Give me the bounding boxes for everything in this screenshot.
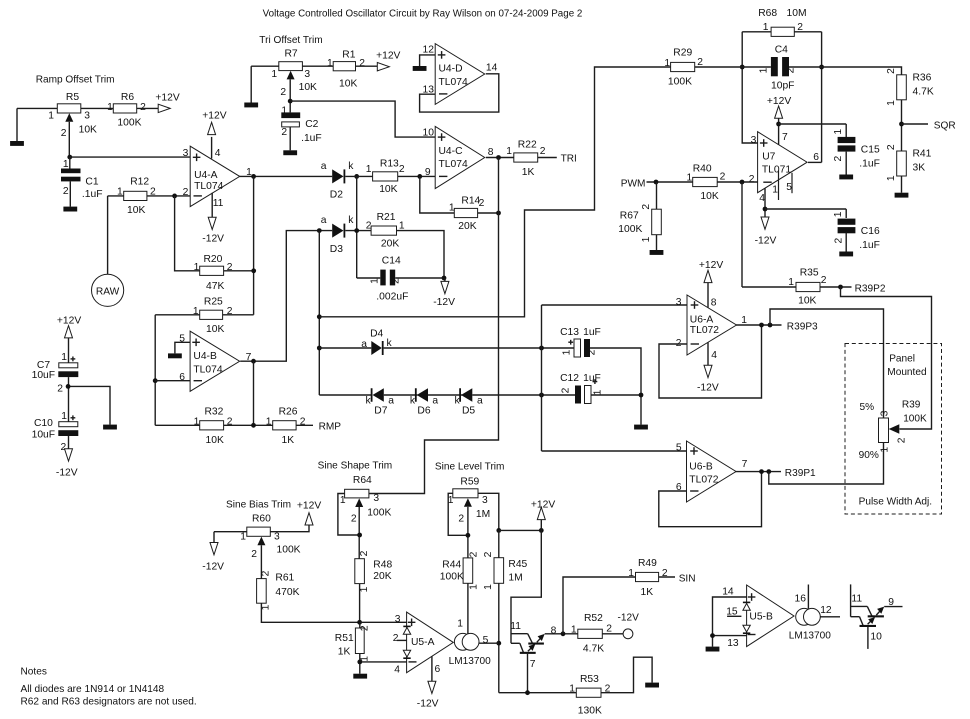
ground	[634, 425, 648, 430]
svg-text:8: 8	[488, 147, 494, 158]
wire	[68, 377, 110, 425]
svg-text:100K: 100K	[277, 545, 301, 556]
svg-text:10K: 10K	[206, 324, 224, 335]
svg-text:2: 2	[697, 57, 703, 68]
wire TRI bus down to sine shaper	[369, 158, 499, 494]
svg-text:1: 1	[63, 159, 69, 170]
wire to R39 pin3	[770, 309, 884, 418]
svg-text:90%: 90%	[859, 450, 879, 461]
diode U5-B bias upper	[743, 602, 750, 611]
svg-text:C10: C10	[34, 418, 53, 429]
svg-text:2: 2	[359, 625, 370, 631]
wire U6-A feedback	[659, 325, 762, 398]
svg-text:U5-A: U5-A	[411, 637, 435, 648]
svg-text:SQR: SQR	[934, 120, 956, 131]
wire U6-B output	[735, 471, 781, 473]
svg-text:6: 6	[435, 664, 441, 675]
svg-text:1: 1	[886, 100, 897, 106]
ground	[895, 193, 909, 198]
wire	[398, 175, 436, 177]
svg-text:2: 2	[785, 67, 796, 73]
power -12V arrow U5-A pin6	[417, 656, 441, 709]
op-amp U5-A	[393, 612, 454, 675]
svg-text:4.7K: 4.7K	[913, 86, 934, 97]
wire U4-B output	[240, 231, 332, 362]
svg-text:LM13700: LM13700	[789, 630, 831, 641]
op-amp U4-A	[183, 146, 253, 209]
svg-text:+12V: +12V	[202, 111, 226, 122]
wire R68 loop	[742, 32, 821, 163]
svg-text:D2: D2	[330, 190, 343, 201]
svg-text:100K: 100K	[440, 571, 464, 582]
wire	[601, 657, 652, 693]
power +12V arrow	[297, 501, 321, 526]
capacitor C16	[833, 209, 880, 252]
svg-text:2: 2	[280, 87, 286, 98]
power +12V arrow	[376, 50, 400, 71]
wire U6-B pin5	[542, 450, 687, 452]
op-amp U5-B	[722, 585, 794, 649]
svg-text:2: 2	[351, 513, 357, 524]
svg-text:2: 2	[479, 198, 485, 209]
svg-text:Panel: Panel	[889, 353, 915, 364]
svg-text:100K: 100K	[668, 77, 692, 88]
ground	[413, 66, 427, 71]
svg-text:1: 1	[340, 495, 346, 506]
svg-text:2: 2	[897, 437, 908, 443]
wire	[901, 176, 903, 193]
svg-text:a: a	[321, 215, 327, 226]
wire	[499, 529, 542, 531]
node junction	[288, 99, 293, 104]
ground	[103, 425, 117, 430]
wire	[448, 493, 468, 535]
ground	[839, 252, 853, 257]
wire	[359, 584, 361, 623]
svg-text:16: 16	[795, 593, 807, 604]
svg-text:.1uF: .1uF	[301, 133, 322, 144]
svg-text:10: 10	[870, 632, 882, 643]
svg-text:10K: 10K	[339, 78, 357, 89]
svg-text:Sine Bias Trim: Sine Bias Trim	[226, 500, 291, 511]
svg-text:7: 7	[782, 132, 788, 143]
svg-text:1: 1	[833, 129, 844, 135]
node junction	[740, 65, 745, 70]
svg-text:Ramp Offset Trim: Ramp Offset Trim	[36, 75, 115, 86]
svg-text:TL074: TL074	[194, 181, 223, 192]
svg-text:D4: D4	[370, 328, 383, 339]
wire U4-D feedback	[420, 74, 499, 112]
svg-text:6: 6	[813, 152, 819, 163]
svg-text:R45: R45	[508, 559, 527, 570]
svg-text:U4-D: U4-D	[439, 64, 463, 75]
node junction	[539, 346, 544, 351]
svg-text:1: 1	[759, 67, 770, 73]
label Panel Mounted	[887, 353, 926, 378]
capacitor C15	[833, 124, 880, 175]
OTA output symbol U5-A	[454, 633, 479, 650]
svg-text:2: 2	[140, 102, 146, 113]
wire U4-B pin5	[175, 342, 190, 353]
svg-text:1: 1	[772, 184, 778, 195]
node junction	[496, 155, 501, 160]
node junction	[417, 174, 422, 179]
wire	[717, 181, 757, 183]
svg-text:3: 3	[395, 614, 401, 625]
wire +12V to transistor collectors	[511, 530, 541, 643]
wire U5-B pin15 stub	[727, 615, 741, 617]
wire pin10 emitter	[867, 627, 869, 649]
svg-text:2: 2	[821, 275, 827, 286]
resistor R32	[194, 407, 233, 447]
wire U6-A output	[736, 324, 782, 326]
svg-text:3: 3	[482, 495, 488, 506]
svg-text:1M: 1M	[508, 572, 522, 583]
svg-text:10K: 10K	[206, 435, 224, 446]
diode U5-A bias upper	[403, 626, 410, 635]
node junction	[819, 65, 824, 70]
op-amp U7 offset pins	[779, 170, 793, 200]
wire	[261, 603, 359, 622]
wire	[319, 394, 371, 396]
resistor R6	[107, 92, 146, 129]
svg-text:-12V: -12V	[697, 382, 719, 393]
wire	[541, 305, 543, 451]
svg-text:12: 12	[820, 605, 832, 616]
svg-text:2: 2	[720, 172, 726, 183]
svg-text:TL074: TL074	[193, 365, 222, 376]
wire main row	[695, 67, 902, 75]
svg-text:1: 1	[107, 102, 113, 113]
svg-text:11: 11	[213, 198, 224, 209]
svg-text:R21: R21	[377, 212, 396, 223]
node junction	[357, 620, 362, 625]
wire	[472, 394, 575, 396]
wire U5-B pin16	[807, 585, 809, 609]
svg-text:7: 7	[530, 659, 536, 670]
wire U4-D pin12	[420, 55, 436, 66]
svg-text:1: 1	[641, 236, 652, 242]
transistor buffer Q lower	[511, 643, 536, 670]
wire	[302, 65, 333, 67]
svg-text:2: 2	[61, 128, 67, 139]
ground	[645, 683, 659, 688]
svg-text:1: 1	[628, 568, 634, 579]
svg-text:-12V: -12V	[417, 698, 439, 709]
svg-text:D3: D3	[330, 244, 343, 255]
svg-text:SIN: SIN	[679, 573, 696, 584]
wire	[420, 176, 455, 213]
svg-text:10K: 10K	[127, 205, 145, 216]
svg-text:R44: R44	[442, 559, 461, 570]
resistor R48	[355, 550, 393, 592]
diode U5-A bias lower	[403, 650, 410, 659]
diode D7	[366, 388, 395, 416]
wire R59 pin3 to +12V node	[478, 493, 499, 530]
node junction	[172, 194, 177, 199]
svg-text:TL074: TL074	[439, 77, 468, 88]
svg-text:R68: R68	[758, 8, 777, 19]
svg-text:R53: R53	[580, 674, 599, 685]
svg-text:1: 1	[271, 69, 277, 80]
svg-text:47K: 47K	[206, 281, 224, 292]
svg-text:1: 1	[483, 584, 494, 590]
wire	[359, 654, 361, 674]
svg-text:R1: R1	[342, 49, 355, 60]
wire	[253, 176, 255, 314]
svg-text:2: 2	[587, 349, 598, 355]
panel mounted dashed box	[845, 344, 942, 515]
node junction	[251, 174, 256, 179]
node junction	[768, 323, 773, 328]
wire to R39 wiper	[841, 287, 932, 429]
power -12V arrow at C10	[56, 436, 78, 478]
wire U5-B pin13	[713, 635, 747, 637]
diode D6	[410, 388, 439, 416]
svg-text:1: 1	[687, 173, 693, 184]
svg-text:C4: C4	[775, 45, 788, 56]
wire	[498, 530, 500, 557]
svg-text:1: 1	[833, 211, 844, 217]
svg-text:R61: R61	[275, 572, 294, 583]
svg-text:2: 2	[390, 278, 401, 284]
wire buffer out pin9	[884, 606, 902, 608]
svg-text:10K: 10K	[379, 184, 397, 195]
svg-text:1: 1	[61, 352, 67, 363]
wire	[68, 122, 70, 157]
svg-text:TL072: TL072	[689, 474, 718, 485]
node junction	[442, 276, 447, 281]
svg-text:k: k	[366, 395, 372, 406]
wire U4-B out node vertical	[318, 231, 320, 395]
wire	[358, 507, 360, 559]
svg-text:.1uF: .1uF	[859, 158, 880, 169]
transistor buffer Q upper	[510, 621, 544, 645]
svg-text:+12V: +12V	[699, 260, 723, 271]
ground	[706, 647, 720, 652]
svg-text:R32: R32	[205, 407, 224, 418]
svg-text:R26: R26	[279, 407, 298, 418]
svg-text:C14: C14	[382, 256, 401, 267]
wire	[901, 100, 903, 151]
diode D4	[361, 328, 392, 355]
svg-text:1: 1	[880, 447, 891, 453]
svg-text:R13: R13	[380, 159, 399, 170]
svg-text:1: 1	[571, 624, 577, 635]
node junction	[354, 174, 359, 179]
trimmer R60	[240, 513, 300, 560]
svg-text:6: 6	[179, 372, 185, 383]
op-amp U4-D	[423, 44, 498, 105]
svg-text:-12V: -12V	[618, 613, 640, 624]
svg-text:D6: D6	[417, 406, 430, 417]
svg-text:1: 1	[366, 164, 372, 175]
wire U4-A output	[240, 175, 333, 177]
wire	[602, 633, 623, 635]
wire	[155, 380, 190, 382]
node junction	[763, 207, 768, 212]
svg-text:10uF: 10uF	[32, 370, 55, 381]
svg-text:TL074: TL074	[439, 159, 468, 170]
svg-text:C1: C1	[85, 177, 98, 188]
svg-text:a: a	[432, 395, 438, 406]
node junction	[539, 393, 544, 398]
svg-text:U4-C: U4-C	[439, 146, 464, 157]
wire	[498, 583, 500, 692]
wire to C16	[765, 208, 846, 210]
svg-text:2: 2	[483, 551, 494, 557]
node junction	[67, 155, 72, 160]
svg-text:All diodes are 1N914 or 1N4148: All diodes are 1N914 or 1N4148	[21, 684, 165, 695]
svg-text:1: 1	[569, 683, 575, 694]
svg-text:4: 4	[711, 350, 717, 361]
resistor R13	[366, 159, 405, 195]
svg-text:2: 2	[540, 146, 546, 157]
resistor R14	[449, 195, 485, 232]
node junction	[66, 384, 71, 389]
wire	[647, 181, 693, 183]
wire	[214, 532, 247, 543]
svg-text:U6-B: U6-B	[689, 461, 713, 472]
svg-text:a: a	[361, 339, 367, 350]
wire	[147, 195, 190, 197]
svg-text:7: 7	[742, 459, 748, 470]
svg-text:1uF: 1uF	[583, 373, 601, 384]
svg-text:1: 1	[48, 111, 54, 122]
wire	[356, 65, 378, 67]
ground	[283, 150, 297, 155]
svg-text:1K: 1K	[641, 587, 654, 598]
svg-text:2: 2	[833, 237, 844, 243]
svg-text:a: a	[477, 395, 483, 406]
resistor R51	[335, 628, 371, 662]
node junction	[838, 285, 843, 290]
svg-text:R41: R41	[913, 148, 932, 159]
svg-text:1: 1	[327, 58, 333, 69]
node junction	[317, 228, 322, 233]
wire	[224, 424, 273, 426]
svg-text:R39P3: R39P3	[787, 321, 818, 332]
node junction	[354, 228, 359, 233]
resistor R67	[618, 204, 661, 243]
svg-text:10K: 10K	[299, 82, 317, 93]
resistor R12	[117, 176, 156, 216]
svg-text:3: 3	[84, 111, 90, 122]
svg-text:1: 1	[194, 262, 200, 273]
svg-text:1: 1	[664, 58, 670, 69]
svg-text:8: 8	[711, 297, 717, 308]
wire U5-A pin2 stub	[397, 639, 407, 641]
svg-text:10pF: 10pF	[771, 80, 794, 91]
svg-text:1: 1	[886, 175, 897, 181]
svg-text:2: 2	[359, 550, 370, 556]
wire	[384, 394, 418, 396]
power -12V arrow U4-A pin11	[202, 193, 224, 245]
diode U5-B bias lower	[743, 625, 750, 634]
svg-text:2: 2	[886, 144, 897, 150]
svg-text:R39P1: R39P1	[785, 468, 816, 479]
svg-text:10uF: 10uF	[32, 429, 55, 440]
wire	[659, 576, 675, 578]
svg-text:20K: 20K	[373, 571, 391, 582]
svg-text:11: 11	[851, 594, 862, 605]
resistor R45	[483, 551, 528, 590]
svg-text:2: 2	[63, 186, 69, 197]
wire	[478, 212, 499, 214]
wire R44 to pin1	[467, 583, 469, 633]
svg-text:-12V: -12V	[202, 562, 224, 573]
wire U5-A output pin5	[479, 642, 499, 644]
ground	[244, 103, 258, 108]
node junction	[776, 122, 781, 127]
svg-text:R60: R60	[252, 513, 271, 524]
svg-text:-12V: -12V	[433, 297, 455, 308]
wire U4-C output	[486, 157, 514, 159]
resistor R41	[886, 144, 932, 181]
node junction	[654, 180, 659, 185]
svg-text:U4-A: U4-A	[194, 170, 218, 181]
power +12V arrow U6-A pin8	[699, 260, 723, 307]
resistor R36	[886, 68, 934, 106]
wire	[538, 157, 557, 159]
svg-text:2: 2	[393, 633, 399, 644]
svg-text:2: 2	[561, 387, 572, 393]
wire	[338, 494, 360, 536]
svg-text:1: 1	[399, 220, 405, 231]
power -12V arrow at C14	[433, 278, 455, 308]
svg-text:-12V: -12V	[755, 235, 777, 246]
wire	[742, 286, 852, 288]
svg-text:2: 2	[281, 127, 287, 138]
svg-text:1: 1	[370, 278, 381, 284]
svg-text:R25: R25	[204, 297, 223, 308]
svg-text:k: k	[348, 215, 354, 226]
power +12V arrow U7 pin7	[767, 96, 791, 145]
wire pin7 emitter to R53 row	[527, 653, 529, 693]
svg-text:R51: R51	[335, 633, 354, 644]
wire U5-B pin14	[713, 597, 747, 647]
svg-text:R39P2: R39P2	[855, 283, 886, 294]
svg-text:2: 2	[260, 570, 271, 576]
trimmer R5	[48, 92, 97, 139]
svg-text:1: 1	[61, 411, 67, 422]
power -12V arrow	[202, 543, 224, 573]
svg-text:C2: C2	[305, 119, 318, 130]
capacitor C2	[281, 105, 321, 144]
svg-text:.1uF: .1uF	[82, 189, 103, 200]
svg-text:20K: 20K	[458, 221, 476, 232]
wire	[137, 107, 159, 109]
wire	[289, 79, 291, 112]
wire	[656, 235, 658, 250]
svg-text:13: 13	[727, 638, 739, 649]
svg-text:U7: U7	[762, 152, 775, 163]
power +12V arrow	[155, 92, 179, 112]
wire U6-B feedback	[659, 472, 762, 527]
svg-text:2: 2	[606, 623, 612, 634]
capacitor C10	[32, 411, 79, 453]
svg-text:k: k	[348, 161, 354, 172]
potentiometer R39	[859, 399, 927, 461]
svg-text:10: 10	[423, 127, 435, 138]
svg-text:1: 1	[194, 416, 200, 427]
svg-text:100K: 100K	[903, 413, 927, 424]
svg-text:3: 3	[183, 148, 189, 159]
svg-text:2: 2	[833, 155, 844, 161]
svg-text:4.7K: 4.7K	[583, 643, 604, 654]
resistor R40	[687, 164, 726, 202]
resistor R20	[194, 254, 233, 292]
